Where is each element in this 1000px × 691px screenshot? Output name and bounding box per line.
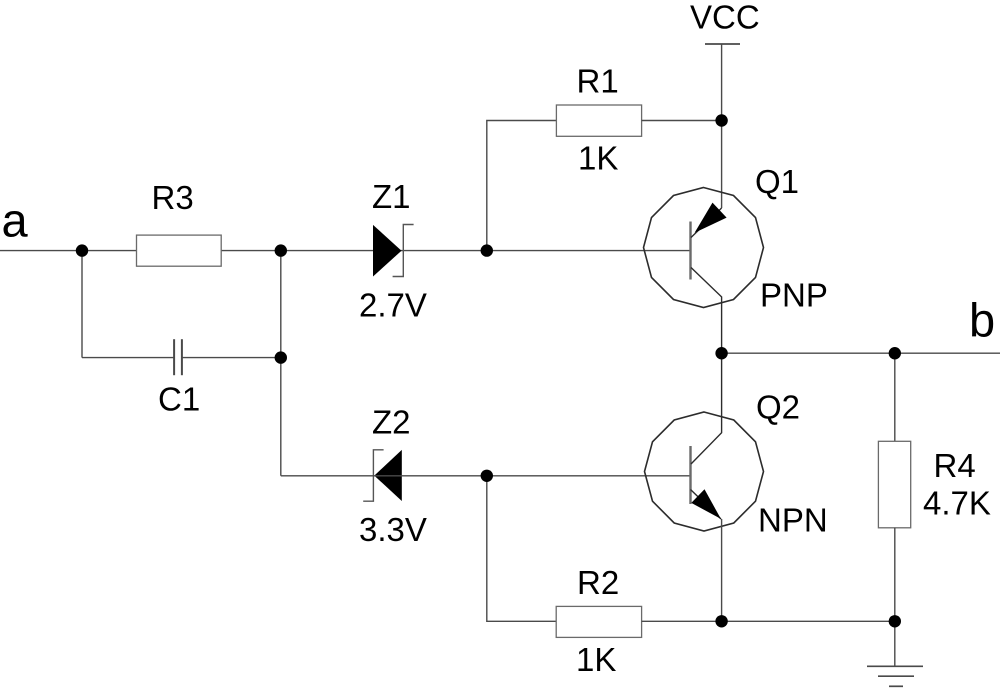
wire vertical at x=486.8 upper (R1 left leg) (487, 121, 557, 251)
svg-text:R3: R3 (152, 179, 194, 216)
svg-text:NPN: NPN (758, 501, 828, 538)
resistor R4 (878, 441, 990, 528)
wire vertical at x=486.8 lower (to R2 row) (487, 476, 556, 622)
wire vertical at x=280.8 (280, 251, 282, 476)
svg-text:4.7K: 4.7K (923, 485, 991, 522)
capacitor C1 (158, 339, 200, 417)
resistor R3 (137, 179, 222, 266)
ground (867, 666, 923, 686)
transistor Q2 emitter arrow (NPN, points out) (691, 489, 721, 519)
VCC rail (705, 43, 740, 45)
svg-text:Z1: Z1 (372, 178, 411, 215)
svg-text:1K: 1K (576, 641, 616, 678)
svg-text:VCC: VCC (690, 0, 760, 36)
svg-text:Q1: Q1 (755, 163, 799, 200)
wire bottom row to R4 (722, 620, 895, 622)
wire vertical left branch at x=82 (81, 251, 83, 358)
svg-text:1K: 1K (578, 139, 618, 176)
transistor Q1 base bar (689, 222, 691, 280)
transistor Q2 base bar (689, 446, 691, 504)
wire Q2 emitter down (721, 519, 723, 621)
svg-text:a: a (2, 194, 29, 247)
svg-text:3.3V: 3.3V (359, 511, 427, 548)
wire R1 right to VCC line (642, 120, 722, 122)
wire R4 bottom leg to ground (894, 528, 896, 667)
transistor Q1 collector diagonal (691, 268, 722, 354)
transistor Q2 emitter diagonal (691, 490, 722, 520)
svg-text:R1: R1 (577, 63, 619, 100)
node dot R1/VCC (715, 114, 727, 126)
resistor R1 (556, 63, 641, 177)
wire VCC vertical down to Q1 emitter (721, 44, 723, 208)
zener diode Z2 (359, 404, 427, 548)
node dot after Z1 (481, 244, 493, 256)
wire R2 right to Q2 emitter node (642, 620, 722, 622)
wire R4 top leg (894, 353, 896, 441)
zener diode Z1 (359, 178, 427, 324)
svg-text:PNP: PNP (760, 276, 828, 313)
svg-text:Q2: Q2 (756, 388, 800, 425)
node dot after Z2 (481, 470, 493, 482)
wire Z2 row (281, 475, 691, 477)
node dot R4 bottom (889, 615, 901, 627)
transistor Q1 emitter arrow (PNP, points to base) (695, 203, 727, 233)
transistor Q2 collector diagonal (691, 353, 722, 464)
wire b row (722, 352, 1000, 354)
transistor Q1 emitter diagonal (691, 208, 722, 238)
svg-text:C1: C1 (158, 380, 200, 417)
svg-text:R4: R4 (934, 447, 976, 484)
node dot b junction (715, 347, 727, 359)
svg-text:2.7V: 2.7V (359, 287, 427, 324)
node dot a-row left (76, 244, 88, 256)
wire C1 row right (182, 357, 281, 359)
node dot R2 right (715, 615, 727, 627)
resistor R2 (556, 564, 641, 678)
wire C1 row left (82, 357, 174, 359)
wire input a row (0, 250, 691, 252)
node dot a-row right of R3 (275, 244, 287, 256)
node dot C1 right (275, 351, 287, 363)
svg-text:Z2: Z2 (372, 404, 411, 441)
node dot b row R4 top (889, 347, 901, 359)
svg-text:b: b (969, 294, 995, 347)
transistor Q2 body (645, 412, 764, 531)
transistor Q1 body (644, 188, 764, 308)
svg-text:R2: R2 (577, 564, 619, 601)
